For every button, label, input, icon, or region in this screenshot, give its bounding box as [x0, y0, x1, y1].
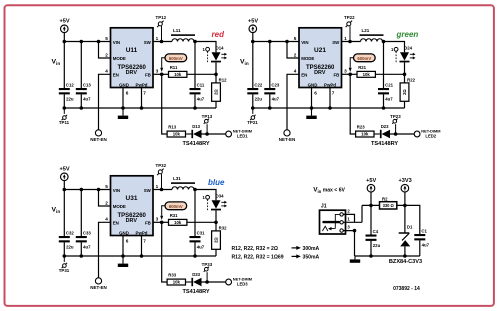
- junction output node: [193, 40, 197, 44]
- wire D33 to NET-DIMM: [202, 281, 226, 283]
- svg-text:4u7: 4u7: [83, 244, 91, 249]
- wire FB to R11: [153, 73, 169, 75]
- junction pin7 rail: [140, 254, 144, 258]
- pin numbers U21: [294, 36, 347, 95]
- svg-text:22u: 22u: [66, 244, 74, 249]
- junction output node: [382, 40, 386, 44]
- svg-text:PwPd: PwPd: [136, 82, 148, 87]
- svg-text:D13: D13: [192, 124, 200, 129]
- svg-text:GND: GND: [308, 82, 318, 87]
- svg-text:FB: FB: [145, 221, 151, 226]
- svg-text:1: 1: [344, 36, 347, 41]
- svg-text:4u7: 4u7: [385, 96, 393, 101]
- svg-text:FB: FB: [333, 73, 339, 78]
- svg-text:6: 6: [314, 90, 317, 95]
- junction MODE tap: [285, 40, 289, 44]
- ground aux: [350, 256, 360, 263]
- test point TP33: [202, 262, 213, 282]
- wire VIN bus: [64, 41, 110, 43]
- wire sense node to R22: [404, 74, 406, 83]
- svg-text:R31: R31: [170, 213, 178, 218]
- LED external pin marker: [391, 47, 398, 62]
- svg-text:TS4148RY: TS4148RY: [183, 289, 210, 295]
- svg-text:D24: D24: [404, 45, 412, 50]
- junction C13 tap: [80, 40, 84, 44]
- svg-text:BZX84-C3V3: BZX84-C3V3: [389, 259, 422, 265]
- wire SW to inductor: [153, 189, 172, 191]
- capacitor C31 4u7: [190, 230, 206, 249]
- svg-text:D1: D1: [407, 225, 413, 230]
- wire R32 to rail: [215, 249, 217, 256]
- svg-text:6: 6: [126, 238, 129, 243]
- +5V supply circuit 1: [59, 19, 69, 33]
- svg-text:3: 3: [156, 68, 159, 73]
- svg-text:SW: SW: [144, 188, 152, 193]
- svg-text:10k: 10k: [174, 220, 182, 225]
- svg-text:350mA: 350mA: [303, 254, 320, 260]
- svg-text:C13: C13: [83, 82, 91, 87]
- junction TP33: [205, 280, 209, 284]
- node NET-DIMM LED2: [414, 129, 440, 139]
- wire ground rail: [253, 107, 405, 109]
- +5V supply aux: [366, 178, 376, 192]
- svg-text:C31: C31: [197, 230, 205, 235]
- svg-text:C4: C4: [373, 229, 379, 234]
- wire MODE to VIN: [287, 42, 299, 59]
- svg-text:+5V: +5V: [59, 19, 69, 25]
- junction C23 tap: [268, 40, 272, 44]
- svg-text:R13: R13: [168, 125, 176, 130]
- junction +5V/C32: [63, 188, 67, 192]
- svg-text:10k: 10k: [173, 132, 181, 137]
- svg-text:10k: 10k: [174, 72, 182, 77]
- svg-text:1: 1: [156, 36, 159, 41]
- inductor L21: [360, 28, 384, 42]
- junction sense node: [403, 73, 407, 77]
- capacitor C4 22u: [366, 229, 381, 248]
- pin numbers J1: [347, 208, 350, 229]
- resistor R2 330ohm: [380, 196, 397, 209]
- svg-text:R23: R23: [357, 125, 365, 130]
- resistor R12 2ohm: [212, 78, 227, 102]
- svg-text:MODE: MODE: [113, 56, 126, 61]
- junction C32 rail: [63, 254, 67, 258]
- svg-text:SW: SW: [332, 40, 340, 45]
- wire LED cathode: [215, 62, 217, 74]
- wire EN to NET-EN: [287, 74, 299, 130]
- wire +5V aux stem: [370, 192, 372, 205]
- wire aux ground rail: [355, 255, 420, 257]
- resistor R22 2ohm: [400, 78, 415, 102]
- svg-text:600mV: 600mV: [169, 204, 183, 209]
- svg-text:EN: EN: [113, 73, 119, 78]
- svg-text:R22: R22: [407, 78, 415, 83]
- svg-text:+5V: +5V: [59, 167, 69, 173]
- svg-text:600mV: 600mV: [169, 56, 183, 61]
- wire SW to inductor: [153, 41, 172, 43]
- svg-text:TP11: TP11: [59, 120, 70, 125]
- wire C12 branch: [63, 42, 65, 109]
- junction C31 rail: [193, 254, 197, 258]
- svg-text:L11: L11: [173, 28, 181, 33]
- wire +3V3 stem: [404, 192, 406, 205]
- wire C31 branch: [194, 190, 196, 257]
- svg-text:NET-EN: NET-EN: [90, 285, 107, 290]
- svg-text:J1: J1: [321, 204, 327, 210]
- svg-text:U11: U11: [126, 47, 138, 54]
- wire SW to inductor: [342, 41, 361, 43]
- resistor R32 2ohm: [212, 226, 227, 250]
- inductor L11: [171, 28, 195, 42]
- svg-text:C32: C32: [66, 230, 74, 235]
- svg-text:4u7: 4u7: [197, 96, 205, 101]
- svg-text:2Ω: 2Ω: [214, 89, 219, 95]
- capacitor C32 22u: [59, 230, 75, 249]
- test point TP32: [156, 163, 167, 190]
- wire GND pin 6: [311, 88, 313, 109]
- junction +5V/C4: [369, 204, 373, 208]
- svg-text:R12, R22, R32 = 1Ω69: R12, R22, R32 = 1Ω69: [232, 254, 284, 260]
- junction FB node: [160, 221, 164, 225]
- svg-text:10k: 10k: [363, 72, 371, 77]
- wire J1 pin 3 to ground: [343, 231, 354, 256]
- junction C13 rail: [80, 106, 84, 110]
- svg-text:5: 5: [105, 36, 108, 41]
- junction TP22: [348, 40, 352, 44]
- capacitor C23 4u7: [264, 82, 280, 101]
- inductor L31: [171, 176, 195, 190]
- capacitor C13 4u7: [76, 82, 92, 101]
- wire R21 to sense node: [375, 73, 404, 75]
- capacitor C11 4u7: [190, 82, 205, 101]
- svg-text:R12: R12: [219, 78, 227, 83]
- pin numbers U11: [105, 36, 158, 95]
- svg-text:DRV: DRV: [314, 70, 326, 76]
- node NET-EN circuit 2: [284, 130, 290, 136]
- svg-text:PwPd: PwPd: [324, 82, 336, 87]
- junction pin6 rail: [121, 106, 125, 110]
- wire VIN bus: [253, 41, 299, 43]
- capacitor C22 22u: [247, 82, 263, 101]
- junction pin6 rail: [121, 254, 125, 258]
- svg-text:10k: 10k: [361, 132, 369, 137]
- wire top supply: [362, 205, 420, 256]
- junction C22 rail: [251, 106, 255, 110]
- wire VIN bus: [64, 189, 110, 191]
- test point TP12: [156, 15, 167, 42]
- LED D24 green: [400, 45, 413, 62]
- svg-text:TP13: TP13: [202, 114, 213, 119]
- node NET-DIMM LED1: [226, 129, 252, 139]
- resistor R23 10k: [356, 125, 374, 137]
- svg-text:TP22: TP22: [344, 15, 355, 20]
- svg-text:1: 1: [156, 184, 159, 189]
- connector J1 DC jack: [320, 204, 346, 235]
- junction pin6 rail: [310, 106, 314, 110]
- wire FB to R13: [162, 74, 167, 134]
- junction sense node: [214, 221, 218, 225]
- resistor R31 10k: [169, 213, 187, 225]
- wire C4 branch: [370, 205, 372, 256]
- svg-text:SW: SW: [144, 40, 152, 45]
- diode D23 TS4148RY: [371, 124, 398, 147]
- wire ground rail: [64, 107, 216, 109]
- svg-text:2Ω: 2Ω: [402, 89, 407, 95]
- wire sense node to R12: [215, 74, 217, 83]
- LED D34 blue: [211, 193, 224, 210]
- svg-text:D34: D34: [216, 193, 224, 198]
- svg-text:TP12: TP12: [156, 15, 167, 20]
- svg-text:+3V3: +3V3: [398, 178, 411, 184]
- wire +5V stem to VIN bus: [63, 180, 65, 189]
- test point TP31: [59, 256, 70, 273]
- junction FB node: [348, 73, 352, 77]
- svg-text:L31: L31: [173, 176, 181, 181]
- resistor R21 10k: [357, 65, 375, 77]
- value label sense resistor note line 2: [232, 254, 320, 260]
- resistor R11 10k: [169, 65, 187, 77]
- svg-text:blue: blue: [208, 178, 225, 187]
- svg-text:VIN: VIN: [113, 40, 120, 45]
- wire C23 branch: [269, 42, 271, 109]
- svg-text:4: 4: [105, 68, 108, 73]
- svg-text:2: 2: [105, 200, 108, 205]
- capacitor C21 4u7: [378, 82, 394, 101]
- svg-text:R2: R2: [382, 196, 388, 201]
- ground circuit 3: [118, 256, 128, 267]
- svg-text:+5V: +5V: [366, 178, 376, 184]
- wire MODE to VIN: [99, 42, 111, 59]
- wire C11 branch: [194, 42, 196, 109]
- +5V supply circuit 2: [248, 19, 258, 33]
- value label sense resistor note line 1: [232, 246, 320, 252]
- op-amp/regulator U11 TPS62260: [111, 28, 154, 88]
- svg-text:FB: FB: [145, 73, 151, 78]
- svg-text:NET-EN: NET-EN: [279, 137, 296, 142]
- resistor R33 10k: [167, 273, 185, 285]
- wire C21 branch: [383, 42, 385, 109]
- svg-text:PwPd: PwPd: [136, 230, 148, 235]
- svg-text:R21: R21: [358, 65, 366, 70]
- ground circuit 2: [306, 108, 316, 119]
- junction TP32: [160, 188, 164, 192]
- junction C21 rail: [382, 106, 386, 110]
- LED light arrows D24: [410, 53, 416, 60]
- svg-text:C11: C11: [197, 82, 205, 87]
- wire C33 branch: [80, 190, 82, 257]
- wire R31 to sense node: [187, 221, 216, 223]
- value label 600mV circuit 3: [160, 202, 187, 220]
- svg-text:U21: U21: [314, 47, 326, 54]
- junction C33 rail: [80, 254, 84, 258]
- svg-text:LED2: LED2: [425, 133, 436, 138]
- wire LED cathode: [404, 62, 406, 74]
- svg-text:22u: 22u: [66, 96, 74, 101]
- wire FB to R33: [162, 222, 167, 282]
- test point TP21: [247, 108, 258, 125]
- svg-text:C33: C33: [83, 230, 91, 235]
- junction TP13: [205, 132, 209, 136]
- svg-text:3: 3: [344, 68, 347, 73]
- node NET-EN circuit 1: [95, 130, 101, 136]
- wire inductor to LED branch: [194, 42, 216, 53]
- value label 600mV circuit 1: [160, 54, 187, 72]
- junction C33 tap: [80, 188, 84, 192]
- wire D13 to NET-DIMM: [202, 133, 226, 135]
- junction +3V3/D1: [403, 204, 407, 208]
- svg-text:EN: EN: [301, 73, 307, 78]
- svg-text:LED3: LED3: [237, 281, 248, 286]
- wire C22 branch: [252, 42, 254, 109]
- junction +5V/C22: [251, 40, 255, 44]
- svg-text:GND: GND: [119, 230, 129, 235]
- svg-text:MODE: MODE: [113, 204, 126, 209]
- junction FB node: [160, 73, 164, 77]
- svg-text:MODE: MODE: [301, 56, 314, 61]
- svg-text:4u7: 4u7: [197, 244, 205, 249]
- svg-text:2: 2: [294, 52, 297, 57]
- wire EN to NET-EN: [99, 74, 111, 130]
- svg-text:L21: L21: [362, 28, 370, 33]
- svg-text:TS4148RY: TS4148RY: [371, 141, 398, 147]
- junction TP23: [394, 132, 398, 136]
- wire inductor to LED branch: [383, 42, 405, 53]
- op-amp/regulator U31 TPS62260: [111, 176, 154, 236]
- svg-text:4u7: 4u7: [422, 242, 430, 247]
- svg-text:R12, R22, R32 = 2Ω: R12, R22, R32 = 2Ω: [232, 246, 278, 252]
- LED light arrows D34: [221, 201, 227, 208]
- wire FB to R31: [153, 221, 169, 223]
- junction pin7 rail: [328, 106, 332, 110]
- resistor R13 10k: [167, 125, 185, 137]
- svg-text:5: 5: [105, 184, 108, 189]
- wire GND pin 6: [122, 88, 124, 109]
- svg-text:red: red: [212, 30, 226, 39]
- capacitor C12 22u: [59, 82, 75, 101]
- diode D1 zener BZX84-C3V3: [389, 225, 422, 266]
- capacitor C33 4u7: [76, 230, 92, 249]
- svg-text:330 Ω: 330 Ω: [383, 203, 395, 208]
- diode D13 TS4148RY: [183, 124, 210, 147]
- junction MODE tap: [97, 188, 101, 192]
- svg-text:300mA: 300mA: [303, 246, 320, 252]
- svg-text:10k: 10k: [173, 280, 181, 285]
- node NET-EN circuit 3: [95, 278, 101, 284]
- svg-text:C22: C22: [254, 82, 262, 87]
- junction C11 rail: [193, 106, 197, 110]
- wire R22 to rail: [404, 101, 406, 108]
- wire FB to R21: [342, 73, 358, 75]
- svg-text:22u: 22u: [255, 96, 263, 101]
- svg-text:073892 - 14: 073892 - 14: [393, 286, 420, 292]
- svg-text:R33: R33: [168, 273, 176, 278]
- test point TP11: [59, 108, 70, 125]
- junction pin7 rail: [140, 106, 144, 110]
- svg-text:EN: EN: [113, 221, 119, 226]
- junction +5V/C12: [63, 40, 67, 44]
- LED external pin marker: [202, 47, 209, 62]
- svg-text:2: 2: [105, 52, 108, 57]
- svg-text:VIN: VIN: [113, 188, 120, 193]
- svg-text:TS4148RY: TS4148RY: [183, 141, 210, 147]
- wire D23 to NET-DIMM: [390, 133, 414, 135]
- svg-text:C21: C21: [385, 82, 393, 87]
- svg-text:7: 7: [143, 238, 146, 243]
- svg-text:GND: GND: [119, 82, 129, 87]
- LED external pin marker: [202, 195, 209, 210]
- svg-text:22u: 22u: [373, 243, 381, 248]
- test point TP22: [344, 15, 355, 42]
- svg-text:3: 3: [156, 216, 159, 221]
- wire FB to R23: [350, 74, 355, 134]
- LED D14 red: [211, 45, 224, 62]
- wire PwPd pin 7: [329, 88, 331, 109]
- junction MODE tap: [97, 40, 101, 44]
- svg-text:R11: R11: [170, 65, 178, 70]
- svg-text:TP33: TP33: [202, 262, 213, 267]
- wire EN to NET-EN: [99, 222, 111, 277]
- capacitor C1 4u7: [414, 228, 429, 247]
- node NET-DIMM LED3: [226, 277, 252, 287]
- svg-text:C1: C1: [421, 228, 427, 233]
- junction C12 rail: [63, 106, 67, 110]
- +3V3 supply: [398, 178, 411, 192]
- svg-text:5: 5: [294, 36, 297, 41]
- op-amp/regulator U21 TPS62260: [299, 28, 342, 88]
- LED light arrows D14: [221, 53, 227, 60]
- svg-text:D23: D23: [381, 124, 389, 129]
- wire LED cathode: [215, 210, 217, 222]
- svg-text:6: 6: [126, 90, 129, 95]
- junction C4 rail: [369, 254, 373, 258]
- svg-text:TP31: TP31: [59, 268, 70, 273]
- wire sense node to R32: [215, 222, 217, 231]
- svg-text:4u7: 4u7: [272, 96, 280, 101]
- +5V supply circuit 3: [59, 167, 69, 181]
- svg-text:TP32: TP32: [156, 163, 167, 168]
- test point TP23: [390, 114, 401, 134]
- svg-text:D14: D14: [216, 45, 224, 50]
- wire ground rail: [64, 255, 216, 257]
- junction C23 rail: [268, 106, 272, 110]
- svg-text:4: 4: [105, 216, 108, 221]
- diode D33 TS4148RY: [183, 272, 210, 295]
- svg-text:TP23: TP23: [390, 114, 401, 119]
- svg-text:DRV: DRV: [126, 70, 138, 76]
- svg-text:C12: C12: [66, 82, 74, 87]
- svg-text:7: 7: [332, 90, 335, 95]
- junction output node: [193, 188, 197, 192]
- wire PwPd pin 7: [141, 88, 143, 109]
- wire PwPd pin 7: [141, 236, 143, 257]
- svg-text:4u7: 4u7: [83, 96, 91, 101]
- ground circuit 1: [118, 108, 128, 119]
- junction sense node: [214, 73, 218, 77]
- svg-text:2Ω: 2Ω: [214, 237, 219, 243]
- svg-text:green: green: [396, 30, 419, 39]
- wire D1 branch: [404, 205, 406, 256]
- svg-text:D33: D33: [192, 272, 200, 277]
- svg-text:600mV: 600mV: [357, 56, 371, 61]
- svg-text:NET-EN: NET-EN: [90, 137, 107, 142]
- wire +5V stem to VIN bus: [252, 32, 254, 41]
- wire R11 to sense node: [187, 73, 216, 75]
- svg-text:R32: R32: [219, 226, 227, 231]
- pin numbers U31: [105, 184, 158, 243]
- junction TP12: [160, 40, 164, 44]
- svg-text:LED1: LED1: [237, 133, 248, 138]
- value label 600mV circuit 2: [349, 54, 376, 72]
